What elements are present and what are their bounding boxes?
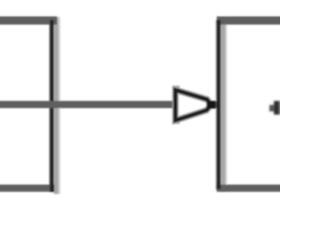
wire: net from block U1 to buffer input bbox=[0, 101, 176, 108]
block U1: bottom edge bbox=[0, 185, 55, 192]
block U1 (left block, clipped at left edge): top edge bbox=[0, 16, 57, 24]
block U1: right edge AA fringe bbox=[49, 17, 61, 194]
block U3: left edge (dark vertical core) bbox=[217, 20, 221, 189]
block U3: left edge AA fringe bbox=[216, 17, 227, 192]
block U3: bottom edge bbox=[217, 185, 285, 192]
buffer U4 (partial symbol, clipped at right edge): base bar bbox=[269, 101, 282, 115]
block U1: right edge (dark vertical core) bbox=[50, 20, 54, 192]
buffer U2 (hollow triangle arrow symbol) bbox=[173, 86, 218, 124]
block U3 (right block, clipped at right edge): top edge bbox=[217, 16, 285, 24]
wire stub into buffer U4 bbox=[269, 105, 274, 112]
